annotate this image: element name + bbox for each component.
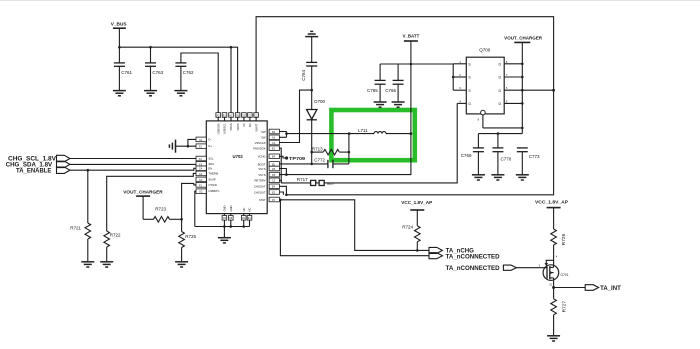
wire VSYS to VBATT riser bbox=[279, 134, 411, 175]
wire U702 D+ stub bbox=[176, 145, 197, 147]
power flag V_BUS bbox=[111, 22, 127, 48]
resistor R727 bbox=[551, 288, 568, 336]
capacitor C762 bbox=[175, 53, 218, 113]
svg-text:SW: SW bbox=[261, 136, 266, 140]
svg-text:GND: GND bbox=[223, 205, 227, 211]
svg-text:C772: C772 bbox=[314, 157, 325, 162]
ground flipped above C764 bbox=[305, 31, 318, 36]
svg-text:D: D bbox=[499, 62, 502, 66]
svg-text:R726: R726 bbox=[561, 233, 567, 245]
test point TP709 bbox=[279, 156, 305, 161]
diode D700 bbox=[307, 99, 326, 120]
power flag VOUT_CHARGER top bbox=[504, 36, 543, 134]
ground C761 bbox=[113, 91, 126, 96]
svg-text:DC: DC bbox=[248, 123, 252, 127]
U702 top pins bbox=[216, 113, 259, 135]
svg-text:TA_nCHG: TA_nCHG bbox=[446, 248, 475, 254]
U702 right pin boxes bbox=[253, 129, 279, 202]
svg-text:R727: R727 bbox=[561, 301, 567, 313]
node Q700 pin6 junction bbox=[552, 89, 555, 92]
svg-text:V_BUS: V_BUS bbox=[111, 22, 127, 27]
svg-text:V_BATT: V_BATT bbox=[403, 34, 420, 39]
wire D700 cathode down to BOOT bbox=[311, 120, 313, 164]
wire R717 to Q700 gate riser bbox=[324, 103, 457, 182]
wire CHG_SCL to U702 SCL bbox=[70, 158, 196, 160]
node R713 left junction bbox=[310, 151, 313, 154]
svg-text:OTGID: OTGID bbox=[208, 183, 217, 187]
node STAT junction bbox=[279, 199, 282, 202]
ground C766 bbox=[392, 102, 405, 107]
svg-text:C773: C773 bbox=[529, 154, 540, 159]
resistor R717 bbox=[297, 177, 335, 186]
capacitor C773 bbox=[517, 148, 540, 175]
svg-text:USBSDA: USBSDA bbox=[216, 123, 220, 134]
svg-text:Q700: Q700 bbox=[479, 48, 491, 53]
capacitor C761 bbox=[114, 47, 133, 90]
wire Q700 pad pin bbox=[483, 115, 524, 129]
power flag VOUT_CHARGER left bbox=[123, 189, 163, 219]
wire Q700 drain pins tie bbox=[504, 63, 553, 105]
capacitor C770 bbox=[492, 134, 511, 175]
svg-text:TP709: TP709 bbox=[289, 156, 306, 161]
wire U702 PHO/SOK down bbox=[279, 148, 281, 183]
svg-text:C765: C765 bbox=[367, 88, 378, 93]
resistor R723 bbox=[143, 206, 182, 222]
svg-text:R721: R721 bbox=[70, 225, 81, 230]
capacitor C766 bbox=[385, 64, 403, 102]
ground C773 bbox=[516, 175, 529, 180]
wire SW to R713 C772 riser bbox=[348, 134, 350, 164]
connector CHG_SDA_1.8V bbox=[6, 161, 70, 168]
power flag VCC_1.8V_AP left bbox=[401, 200, 432, 226]
ground C770 bbox=[491, 175, 504, 180]
connector CHG_SCL_1.8V bbox=[8, 155, 70, 162]
wire U702 VSSCAP to C764 bottom bbox=[279, 90, 311, 142]
svg-text:C766: C766 bbox=[385, 88, 396, 93]
connector TA_ENABLE bbox=[16, 167, 70, 174]
svg-text:R722: R722 bbox=[110, 233, 121, 238]
resistor R725 bbox=[179, 219, 197, 261]
svg-text:EN: EN bbox=[208, 166, 212, 170]
svg-text:PHO/SOK: PHO/SOK bbox=[253, 147, 265, 151]
svg-text:C763: C763 bbox=[152, 70, 163, 75]
node SW junction bbox=[285, 132, 288, 135]
wire U702 CHGOUT E3 jog bbox=[279, 192, 283, 195]
wire V_BATT bus bbox=[380, 63, 453, 65]
svg-text:C769: C769 bbox=[461, 153, 472, 158]
svg-text:VCC_1.8V_AP: VCC_1.8V_AP bbox=[401, 200, 432, 205]
wire U702 ground bus bbox=[195, 220, 250, 228]
wire U702 D- jog bbox=[188, 139, 196, 146]
node V_BATT junction bbox=[410, 63, 413, 66]
wire output caps bus bbox=[478, 133, 522, 135]
ground sideways on D lines bbox=[169, 140, 175, 153]
op-amp U702 body bbox=[206, 121, 267, 214]
wire U702 BOOT bbox=[279, 163, 311, 165]
svg-text:C761: C761 bbox=[121, 70, 132, 75]
svg-text:R713: R713 bbox=[312, 146, 323, 151]
svg-text:R724: R724 bbox=[402, 225, 413, 230]
svg-text:TA_INT: TA_INT bbox=[600, 286, 621, 292]
svg-text:BOOT: BOOT bbox=[258, 162, 266, 166]
connector TA_nCHG bbox=[429, 247, 474, 254]
Q700 pin numbers bbox=[459, 60, 508, 122]
capacitor C772 bbox=[312, 157, 349, 168]
ground C765 bbox=[374, 102, 387, 107]
svg-text:USBDTC: USBDTC bbox=[208, 189, 219, 193]
svg-text:VSSCAP: VSSCAP bbox=[255, 141, 266, 145]
resistor R722 bbox=[104, 173, 196, 261]
svg-text:R723: R723 bbox=[155, 206, 166, 211]
resistor R721 bbox=[70, 170, 90, 261]
svg-text:L711: L711 bbox=[358, 128, 368, 133]
wire U702 VSYS pins jog bbox=[279, 169, 287, 176]
svg-text:G: G bbox=[468, 102, 471, 106]
node C764 junction bbox=[310, 89, 313, 92]
svg-text:VOUT_CHARGER: VOUT_CHARGER bbox=[123, 189, 163, 194]
ground C763 bbox=[144, 91, 157, 96]
node caps bus junction bbox=[497, 132, 500, 135]
ground C762 bbox=[174, 91, 187, 96]
svg-text:TA_nCONNECTED: TA_nCONNECTED bbox=[446, 266, 501, 272]
ground U702 bbox=[218, 227, 231, 243]
wire V_BATT down to L711 bbox=[410, 64, 412, 134]
node BOOT corner bbox=[310, 163, 313, 166]
top border line bbox=[0, 0, 700, 2]
svg-text:NC: NC bbox=[248, 208, 252, 212]
ground C769 bbox=[472, 175, 485, 180]
svg-text:SW: SW bbox=[261, 130, 266, 134]
svg-text:RETDRV: RETDRV bbox=[254, 179, 265, 183]
svg-text:SCL: SCL bbox=[208, 157, 214, 161]
svg-text:R717: R717 bbox=[297, 177, 308, 182]
power flag V_BATT bbox=[403, 34, 420, 64]
svg-text:U702: U702 bbox=[233, 154, 244, 159]
svg-text:D700: D700 bbox=[314, 99, 325, 104]
inductor L711 bbox=[358, 128, 386, 133]
ground R722 bbox=[100, 262, 113, 267]
svg-text:VBUS: VBUS bbox=[236, 123, 240, 131]
svg-text:NC: NC bbox=[242, 208, 246, 212]
wire to TA_INT bbox=[554, 287, 586, 289]
wire Q700 gate stub bbox=[457, 102, 466, 104]
wire R725 riser to U702 OTGID bbox=[182, 183, 196, 219]
svg-text:GND: GND bbox=[229, 205, 233, 211]
svg-text:TA_ENABLE: TA_ENABLE bbox=[16, 168, 51, 174]
resistor R726 bbox=[551, 229, 567, 255]
node R723 R725 junction bbox=[180, 218, 183, 221]
wire Q700 source pins tie bbox=[452, 64, 466, 90]
svg-text:USBSCL: USBSCL bbox=[223, 123, 227, 134]
wire VBATT pin to Q700 drain net top route bbox=[256, 17, 553, 113]
ground R721 bbox=[81, 262, 94, 267]
wire U702 CHGOUT E4 jog bbox=[279, 186, 286, 195]
transistor Q700 bbox=[466, 48, 504, 115]
node TA_ENABLE junction bbox=[87, 169, 90, 172]
ground R725 bbox=[175, 262, 188, 267]
highlight green rectangle bbox=[331, 110, 414, 160]
wire U702 STAT to TA_nCHG bbox=[279, 200, 429, 251]
wire Q700 drain net down to CHGOUT bbox=[286, 90, 553, 195]
capacitor C763 bbox=[145, 47, 164, 90]
svg-text:VCHG: VCHG bbox=[258, 155, 266, 159]
wire V_BUS bus bbox=[119, 47, 237, 113]
svg-text:D: D bbox=[499, 89, 502, 93]
wire TA_nCONNECTED to G701 gate bbox=[516, 267, 543, 269]
resistor R724 bbox=[402, 225, 420, 251]
wire SW node bbox=[287, 133, 375, 135]
capacitor C765 bbox=[367, 64, 386, 102]
node L711 right junction bbox=[410, 132, 413, 135]
svg-text:D: D bbox=[499, 76, 502, 80]
resistor R713 bbox=[312, 146, 349, 155]
svg-text:STAT: STAT bbox=[259, 198, 266, 202]
svg-text:D+: D+ bbox=[208, 144, 212, 148]
wire TA_ENABLE to U702 EN bbox=[70, 168, 196, 170]
svg-text:CHGOUT: CHGOUT bbox=[254, 185, 266, 189]
wire CHGOUT branch to TA_nCONNECTED bbox=[280, 200, 429, 256]
U702 bottom pins bbox=[222, 205, 252, 220]
wire U702 RETDRV jog bbox=[279, 180, 281, 183]
wire USBDTC pin to ground bus bbox=[195, 191, 196, 226]
node TA_INT junction bbox=[552, 286, 555, 289]
svg-text:VCC_1.8V_AP: VCC_1.8V_AP bbox=[535, 200, 568, 205]
connector TA_nCONNECTED out bbox=[429, 253, 500, 261]
svg-text:SUSP: SUSP bbox=[208, 177, 216, 181]
svg-text:VC: VC bbox=[242, 123, 246, 127]
node R724 junction bbox=[416, 249, 419, 252]
ground R727 bbox=[547, 336, 560, 341]
connector TA_nCONNECTED in bbox=[446, 265, 517, 272]
svg-text:G701: G701 bbox=[561, 273, 569, 277]
svg-text:D-: D- bbox=[208, 137, 211, 141]
wire RETDRV to Q700 gate bbox=[281, 182, 310, 184]
svg-text:D: D bbox=[499, 102, 502, 106]
svg-text:R725: R725 bbox=[185, 234, 196, 239]
wire U702 SW pins jog bbox=[279, 132, 286, 138]
svg-text:SDA: SDA bbox=[208, 162, 214, 166]
svg-text:VSYS: VSYS bbox=[258, 173, 265, 177]
connector TA_INT bbox=[585, 285, 621, 292]
power flag VCC_1.8V_AP right bbox=[535, 200, 568, 229]
svg-text:CHGOUT: CHGOUT bbox=[254, 190, 266, 194]
wire G701 source to node bbox=[553, 281, 555, 288]
svg-text:VOUT_CHARGER: VOUT_CHARGER bbox=[504, 36, 543, 41]
svg-text:VBATT: VBATT bbox=[254, 123, 258, 132]
svg-text:THERM: THERM bbox=[208, 171, 218, 175]
capacitor C764 bbox=[301, 37, 317, 110]
node R713 right junction bbox=[348, 151, 351, 154]
svg-text:TA_nCONNECTED: TA_nCONNECTED bbox=[446, 254, 501, 260]
capacitor C769 bbox=[461, 134, 484, 175]
node D- D+ junction bbox=[187, 145, 190, 148]
wire CHG_SDA to U702 SDA bbox=[70, 163, 196, 165]
transistor G701 bbox=[539, 255, 569, 287]
node V_BUS junction dots bbox=[118, 46, 121, 49]
svg-text:VSYS: VSYS bbox=[258, 167, 265, 171]
node L711 left junction bbox=[348, 132, 351, 135]
svg-text:VBUS: VBUS bbox=[229, 123, 233, 131]
svg-text:C764: C764 bbox=[301, 70, 306, 81]
U702 left pin boxes bbox=[196, 137, 220, 194]
node CHGOUT junction bbox=[285, 194, 288, 197]
svg-text:C762: C762 bbox=[183, 70, 194, 75]
svg-text:C770: C770 bbox=[501, 157, 512, 162]
wire VBUS pin riser bbox=[230, 47, 232, 113]
